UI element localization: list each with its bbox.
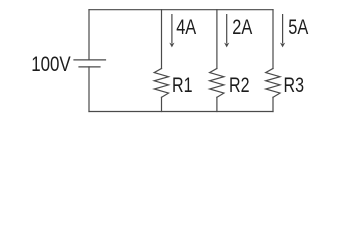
current arrow I3 (5A)	[282, 14, 284, 44]
wire bottom horizontal	[89, 111, 273, 113]
wire branch 2 upper	[216, 10, 218, 69]
resistor R2	[210, 69, 224, 98]
wire branch 1 upper	[161, 10, 163, 69]
svg-text:4A: 4A	[176, 14, 196, 39]
svg-text:R2: R2	[229, 72, 250, 97]
resistor R1	[154, 69, 168, 98]
wire branch 1 lower	[161, 97, 163, 111]
wire left upper (battery top lead)	[88, 10, 90, 60]
battery V1 positive plate	[74, 59, 106, 61]
svg-text:R3: R3	[284, 72, 305, 97]
battery V1 negative plate	[79, 66, 100, 68]
wire top horizontal	[89, 9, 273, 11]
wire left lower (battery bottom lead)	[88, 67, 90, 112]
resistor R3	[266, 69, 280, 98]
svg-text:R1: R1	[172, 72, 193, 97]
wire branch 2 lower	[216, 97, 218, 111]
svg-text:2A: 2A	[232, 14, 252, 39]
wire branch 3 lower	[272, 97, 274, 111]
svg-text:5A: 5A	[288, 14, 308, 39]
current arrow I1 (4A)	[171, 14, 173, 44]
wire branch 3 upper (right side of loop)	[272, 10, 274, 69]
svg-text:100V: 100V	[31, 51, 71, 76]
current arrow I2 (2A)	[226, 14, 228, 44]
